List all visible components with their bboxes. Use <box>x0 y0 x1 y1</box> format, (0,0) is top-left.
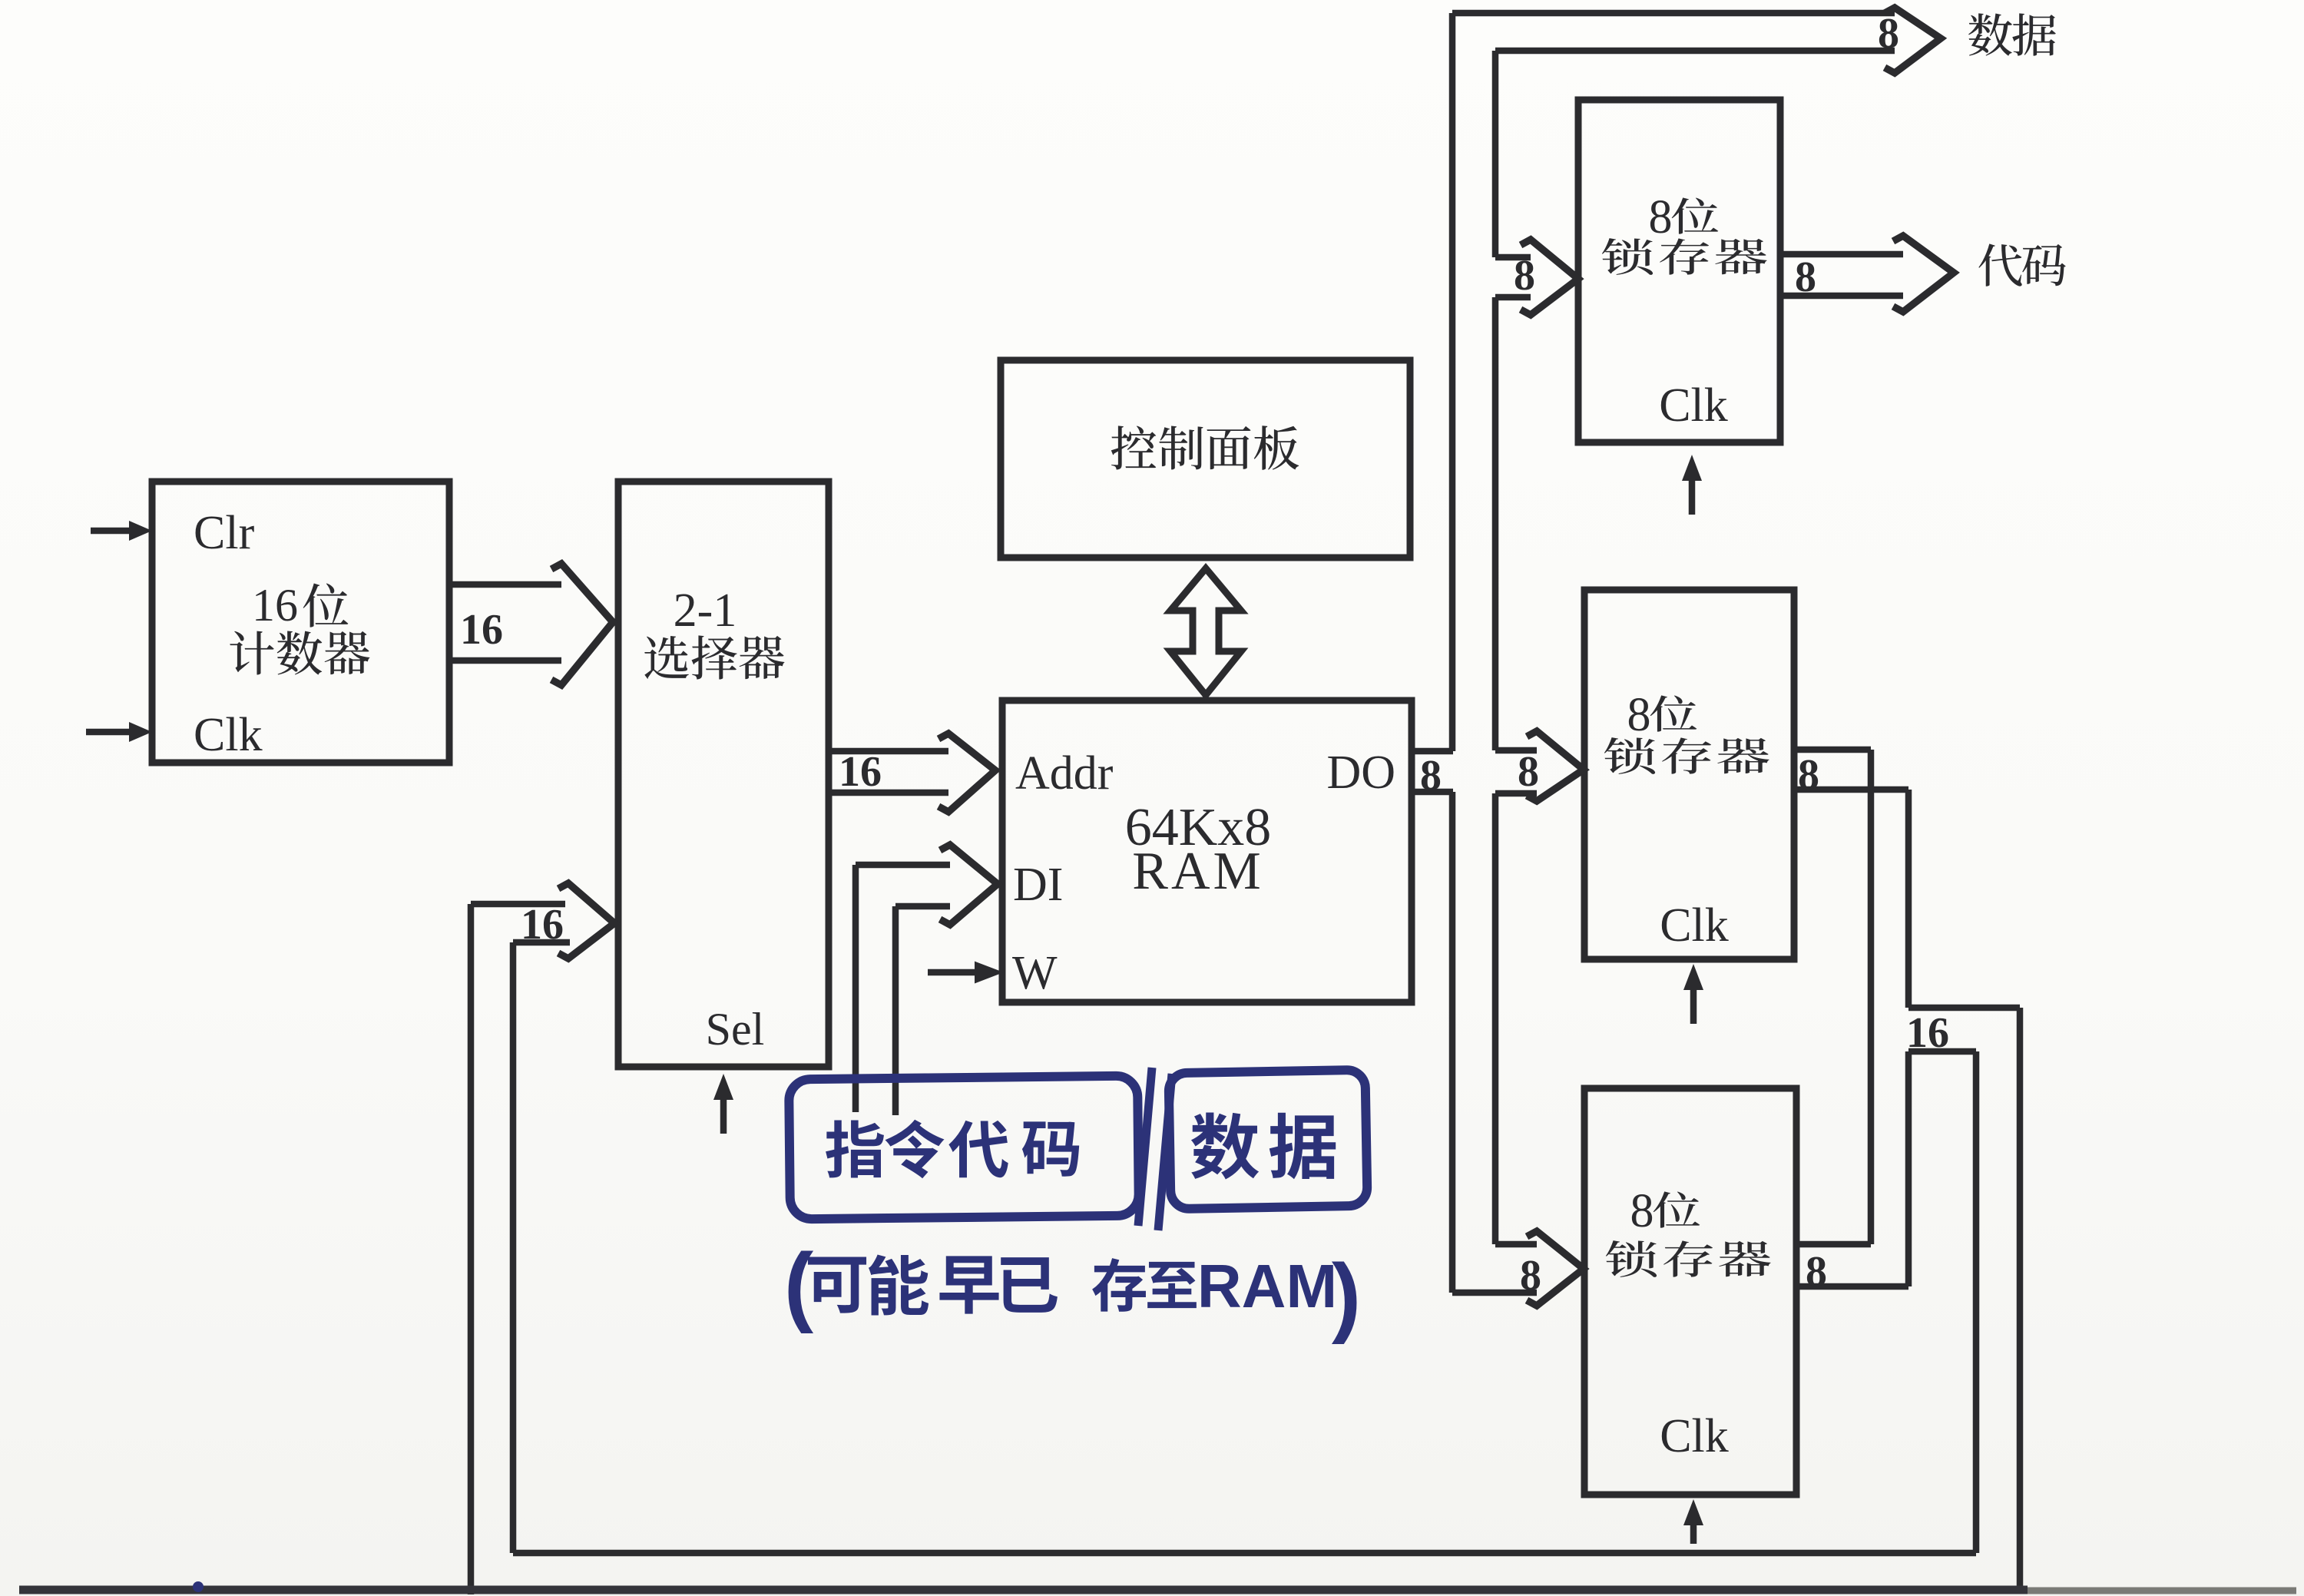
svg-text:Sel: Sel <box>706 1004 765 1055</box>
svg-text:8: 8 <box>1878 10 1899 58</box>
svg-text:8: 8 <box>1627 689 1651 741</box>
svg-text:16: 16 <box>521 901 564 949</box>
svg-text:8: 8 <box>1520 1252 1541 1300</box>
svg-text:Clk: Clk <box>1659 379 1728 432</box>
svg-text:Clk: Clk <box>1660 899 1729 952</box>
svg-text:): ) <box>1332 1247 1361 1345</box>
svg-text:RAM: RAM <box>1132 842 1263 901</box>
svg-text:DI: DI <box>1013 859 1063 911</box>
svg-text:(: ( <box>784 1236 814 1334</box>
svg-text:8: 8 <box>1649 191 1673 243</box>
svg-text:8: 8 <box>1420 752 1442 800</box>
svg-text:8: 8 <box>1630 1185 1654 1237</box>
svg-text:8: 8 <box>1798 751 1819 799</box>
svg-text:2-1: 2-1 <box>674 584 737 637</box>
svg-text:Addr: Addr <box>1015 747 1114 800</box>
svg-text:Clr: Clr <box>194 507 255 559</box>
svg-text:16: 16 <box>252 580 298 631</box>
svg-text:Clk: Clk <box>194 709 263 761</box>
svg-text:16: 16 <box>460 606 503 654</box>
svg-text:16: 16 <box>1906 1009 1949 1057</box>
svg-text:16: 16 <box>839 748 882 796</box>
svg-text:DO: DO <box>1326 747 1395 799</box>
svg-text:8: 8 <box>1518 748 1539 796</box>
svg-text:W: W <box>1012 947 1058 999</box>
svg-text:RAM: RAM <box>1197 1252 1337 1320</box>
svg-text:Clk: Clk <box>1660 1410 1729 1462</box>
svg-text:8: 8 <box>1514 252 1535 300</box>
svg-text:8: 8 <box>1806 1248 1827 1296</box>
svg-text:8: 8 <box>1795 253 1816 301</box>
